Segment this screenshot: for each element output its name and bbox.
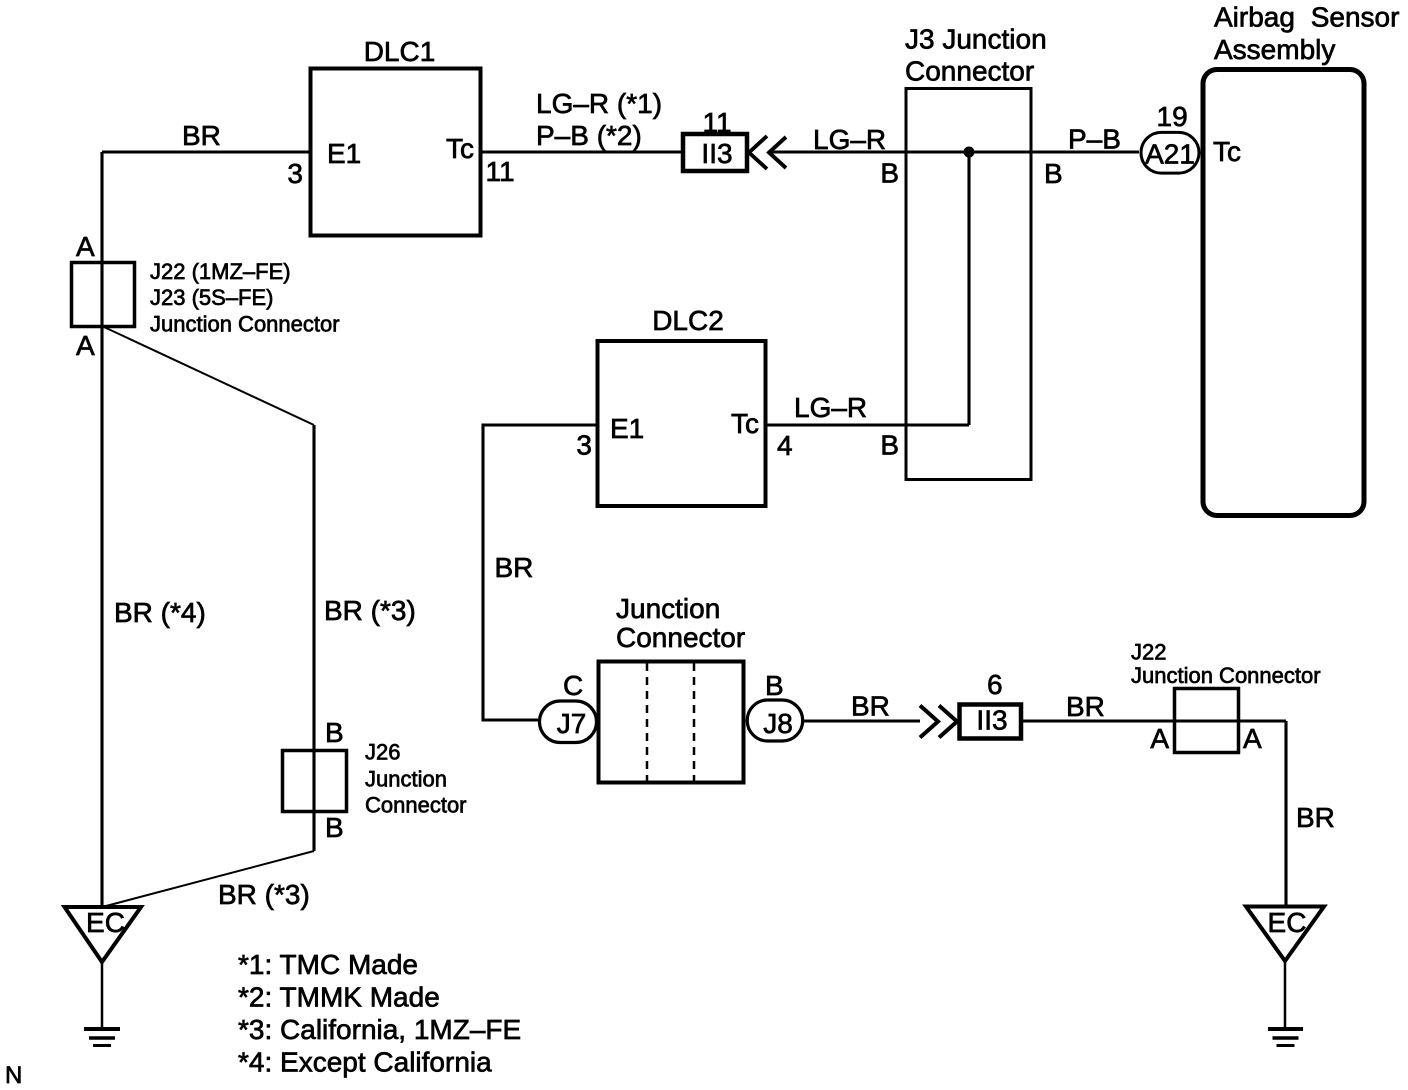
svg-text:A: A [76, 231, 95, 262]
svg-text:A21: A21 [1145, 139, 1195, 170]
svg-text:N: N [5, 1062, 22, 1089]
svg-text:3: 3 [576, 430, 592, 461]
svg-text:J8: J8 [763, 708, 793, 739]
svg-text:BR (*3): BR (*3) [218, 879, 310, 910]
svg-text:J22 (1MZ–FE): J22 (1MZ–FE) [150, 259, 291, 284]
svg-text:P–B: P–B [1068, 124, 1121, 155]
svg-text:6: 6 [987, 669, 1003, 700]
svg-text:B: B [325, 812, 344, 843]
svg-text:3: 3 [287, 158, 303, 189]
svg-text:DLC2: DLC2 [652, 305, 724, 336]
svg-text:Junction: Junction [365, 767, 447, 792]
svg-text:EC: EC [1268, 907, 1307, 938]
svg-text:*1: TMC Made: *1: TMC Made [238, 949, 418, 980]
svg-text:EC: EC [86, 907, 125, 938]
svg-text:11: 11 [486, 156, 515, 187]
svg-text:4: 4 [777, 430, 793, 461]
svg-text:J22: J22 [1131, 640, 1166, 665]
svg-text:E1: E1 [327, 138, 361, 169]
svg-text:II3: II3 [976, 705, 1007, 736]
svg-text:A: A [1150, 723, 1169, 754]
svg-text:*3: California, 1MZ–FE: *3: California, 1MZ–FE [238, 1014, 521, 1045]
svg-text:B: B [765, 670, 784, 701]
svg-text:C: C [563, 670, 583, 701]
svg-text:BR: BR [495, 552, 534, 583]
svg-text:*4: Except California: *4: Except California [238, 1046, 492, 1077]
svg-text:Connector: Connector [365, 793, 467, 818]
svg-text:J23 (5S–FE): J23 (5S–FE) [150, 285, 274, 310]
svg-text:J7: J7 [557, 708, 587, 739]
svg-text:DLC1: DLC1 [364, 36, 436, 67]
svg-text:LG–R: LG–R [794, 392, 867, 423]
svg-text:B: B [880, 158, 899, 189]
svg-text:B: B [325, 717, 344, 748]
svg-text:Airbag Sensor: Airbag Sensor [1214, 2, 1399, 33]
svg-text:BR: BR [182, 120, 221, 151]
svg-text:LG–R (*1): LG–R (*1) [536, 88, 662, 119]
svg-text:J26: J26 [365, 740, 400, 765]
svg-text:B: B [1044, 158, 1063, 189]
svg-text:BR (*3): BR (*3) [324, 595, 416, 626]
svg-text:*2: TMMK Made: *2: TMMK Made [238, 981, 440, 1012]
svg-text:BR (*4): BR (*4) [114, 597, 206, 628]
svg-text:E1: E1 [610, 413, 644, 444]
svg-text:A: A [1243, 723, 1262, 754]
svg-text:A: A [76, 330, 95, 361]
svg-text:II3: II3 [701, 138, 732, 169]
svg-text:LG–R: LG–R [813, 124, 886, 155]
svg-text:BR: BR [1296, 802, 1335, 833]
svg-text:BR: BR [851, 691, 890, 722]
svg-text:19: 19 [1157, 101, 1188, 132]
svg-text:Tc: Tc [1213, 136, 1241, 167]
svg-text:Junction: Junction [616, 593, 720, 624]
svg-text:11: 11 [702, 107, 731, 138]
svg-text:J3 Junction: J3 Junction [905, 24, 1047, 55]
svg-text:Junction Connector: Junction Connector [150, 312, 340, 337]
svg-text:P–B (*2): P–B (*2) [536, 120, 642, 151]
svg-text:B: B [880, 430, 899, 461]
svg-text:Connector: Connector [905, 56, 1034, 87]
svg-text:Junction Connector: Junction Connector [1131, 663, 1321, 688]
svg-text:Tc: Tc [731, 408, 759, 439]
svg-text:BR: BR [1066, 691, 1105, 722]
svg-text:Assembly: Assembly [1214, 34, 1335, 65]
svg-text:Connector: Connector [616, 622, 745, 653]
svg-text:Tc: Tc [446, 133, 474, 164]
